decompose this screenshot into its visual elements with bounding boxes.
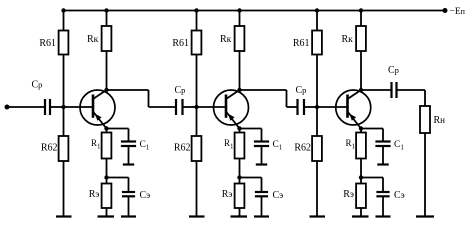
- wire: emitter to R1 stage 2: [239, 129, 241, 133]
- wire: coupling step down 1-2: [148, 90, 150, 107]
- wire: Rk to collector stage 2: [239, 51, 241, 90]
- ground (R62 stage 3): [310, 215, 326, 217]
- resistor R62 (stage 3): [312, 136, 322, 161]
- wire: top supply rail -Ep: [64, 10, 446, 12]
- capacitor Ce (stage 2): [255, 178, 268, 217]
- node: rail junction R61 stage 1: [61, 8, 65, 12]
- capacitor Cp (output coupling): [390, 82, 392, 98]
- svg-text:R62: R62: [41, 143, 58, 154]
- ground (R62 stage 1): [56, 215, 72, 217]
- terminal -Ep: [443, 8, 448, 13]
- node: rail junction Rk stage 1: [104, 8, 108, 12]
- svg-text:R61: R61: [39, 38, 56, 49]
- capacitor Cp (input coupling): [44, 99, 46, 115]
- wire: Rn to ground: [424, 133, 426, 217]
- resistor R61 (stage 2): [192, 31, 202, 55]
- wire: collector 3 to output Cp: [361, 89, 392, 91]
- resistor Rk (stage 1): [102, 26, 112, 51]
- wire: R61 to base node stage 3: [316, 55, 318, 107]
- wire: emitter to R1 stage 3: [360, 129, 362, 133]
- wire: coupling step down 2-3: [286, 90, 288, 107]
- wire: node to Ce stage 2: [240, 177, 262, 179]
- wire: collector 2 to coupling step: [240, 89, 287, 91]
- ground (Rn): [416, 215, 434, 217]
- ground (Re stage 2): [231, 215, 248, 217]
- svg-text:R61: R61: [293, 38, 310, 49]
- svg-text:R61: R61: [172, 38, 189, 49]
- wire: output Cp to Rn: [397, 89, 426, 91]
- wire: R61 to base node stage 2: [196, 55, 198, 107]
- resistor Rk (stage 2): [235, 26, 245, 51]
- wire: Rk to collector stage 1: [106, 51, 108, 90]
- wire: R62 to ground stage 2: [196, 161, 198, 217]
- node: emitter junction stage 3: [359, 126, 363, 130]
- node: rail junction Rk stage 2: [237, 8, 241, 12]
- svg-text:Rэ: Rэ: [89, 189, 100, 200]
- wire: Cp3 to base node stage 3: [304, 106, 317, 108]
- input terminal: [5, 105, 10, 110]
- wire: emitter node to C1 stage 3: [361, 128, 383, 130]
- resistor Re (stage 1): [102, 184, 112, 209]
- node: collector stage 3: [359, 88, 363, 92]
- wire: node to Re stage 2: [239, 178, 241, 184]
- svg-text:Rн: Rн: [434, 115, 446, 126]
- capacitor Cp (coupling 1-2): [175, 99, 177, 115]
- node: base divider junction stage 3: [315, 105, 319, 109]
- wire: base node to R62 stage 1: [63, 107, 65, 136]
- svg-text:Cр: Cр: [175, 85, 186, 96]
- node: R1-Re junction stage 2: [237, 175, 241, 179]
- ground (Re stage 1): [98, 215, 115, 217]
- wire: base lead stage 3: [317, 106, 348, 108]
- transistor Q2 (PNP): [214, 90, 249, 129]
- svg-text:Cр: Cр: [296, 85, 307, 96]
- wire: Re to ground stage 1: [106, 208, 108, 217]
- wire: rail to Rk stage 1: [106, 11, 108, 27]
- resistor Re (stage 3): [356, 184, 366, 209]
- node: base divider junction stage 2: [194, 105, 198, 109]
- svg-text:Rк: Rк: [220, 34, 232, 45]
- wire: rail to R61 stage 2: [196, 11, 198, 31]
- wire: Re to ground stage 2: [239, 208, 241, 217]
- resistor Re (stage 2): [235, 184, 245, 209]
- ground (Ce stage 3): [376, 215, 391, 217]
- wire: Cp1 to base node of stage 1: [50, 106, 64, 108]
- node: rail junction R61 stage 3: [315, 8, 319, 12]
- wire: rail to Rk stage 2: [239, 11, 241, 27]
- svg-text:Cэ: Cэ: [394, 190, 405, 201]
- wire: base node to R62 stage 3: [316, 107, 318, 136]
- wire: node to Re stage 3: [360, 178, 362, 184]
- resistor R61 (stage 1): [59, 31, 69, 55]
- wire: base node to R62 stage 2: [196, 107, 198, 136]
- wire: R1 to Re stage 1: [106, 159, 108, 178]
- wire: emitter node to C1 stage 2: [240, 128, 262, 130]
- wire: base lead stage 1: [64, 106, 94, 108]
- node: R1-Re junction stage 3: [359, 175, 363, 179]
- transistor Q1 (PNP): [80, 90, 115, 129]
- wire: rail to Rk stage 3: [360, 11, 362, 27]
- svg-text:Rэ: Rэ: [222, 189, 233, 200]
- wire: collector 1 to coupling step: [107, 89, 149, 91]
- resistor R62 (stage 1): [59, 136, 69, 161]
- node: rail junction Rk stage 3: [359, 8, 363, 12]
- svg-text:Rэ: Rэ: [343, 189, 354, 200]
- wire: emitter to R1 stage 1: [106, 129, 108, 133]
- node: rail junction R61 stage 2: [194, 8, 198, 12]
- node: collector stage 1: [104, 88, 108, 92]
- ground (Ce stage 2): [254, 215, 269, 217]
- svg-text:Cэ: Cэ: [273, 190, 284, 201]
- ground (Ce stage 1): [121, 215, 136, 217]
- node: emitter junction stage 1: [104, 126, 108, 130]
- resistor R62 (stage 2): [192, 136, 202, 161]
- node: collector stage 2: [237, 88, 241, 92]
- wire: emitter node to C1 stage 1: [107, 128, 129, 130]
- transistor Q3 (PNP): [336, 90, 371, 129]
- wire: node to Ce stage 3: [361, 177, 383, 179]
- capacitor C1 (stage 1): [121, 129, 136, 165]
- wire: Rk to collector stage 3: [360, 51, 362, 90]
- wire: input to Cp1: [7, 106, 45, 108]
- capacitor Ce (stage 1): [122, 178, 135, 217]
- wire: Cp2 to base node stage 2: [183, 106, 197, 108]
- wire: rail to R61 stage 3: [316, 11, 318, 31]
- wire: R62 to ground stage 3: [316, 161, 318, 217]
- svg-text:Cэ: Cэ: [140, 190, 151, 201]
- svg-text:−Eп: −Eп: [450, 7, 466, 17]
- svg-text:Rк: Rк: [342, 34, 354, 45]
- resistor R1 (stage 3): [356, 133, 366, 159]
- wire: node to Re stage 1: [106, 178, 108, 184]
- wire: R1 to Re stage 2: [239, 159, 241, 178]
- wire: base lead stage 2: [197, 106, 227, 108]
- wire: Re to ground stage 3: [360, 208, 362, 217]
- node: base divider junction stage 1: [61, 105, 65, 109]
- ground (Re stage 3): [352, 215, 369, 217]
- wire: node to Ce stage 1: [107, 177, 129, 179]
- capacitor Ce (stage 3): [376, 178, 389, 217]
- svg-text:R62: R62: [174, 143, 191, 154]
- capacitor Cp (coupling 2-3): [296, 99, 298, 115]
- svg-text:Rк: Rк: [87, 34, 99, 45]
- wire: to Cp3: [287, 106, 298, 108]
- node: R1-Re junction stage 1: [104, 175, 108, 179]
- resistor R1 (stage 1): [102, 133, 112, 159]
- wire: R61 to base node stage 1: [63, 55, 65, 107]
- capacitor C1 (stage 2): [254, 129, 269, 165]
- resistor Rk (stage 3): [356, 26, 366, 51]
- wire: rail to R61 stage 1: [63, 11, 65, 31]
- resistor Rn (load): [420, 106, 430, 133]
- ground (C1 stage 1): [123, 163, 134, 165]
- ground (R62 stage 2): [189, 215, 205, 217]
- wire: R62 to ground stage 1: [63, 161, 65, 217]
- svg-text:Cр: Cр: [388, 65, 399, 76]
- wire: down to Rn: [424, 90, 426, 106]
- ground (C1 stage 3): [377, 163, 388, 165]
- ground (C1 stage 2): [256, 163, 267, 165]
- node: emitter junction stage 2: [237, 126, 241, 130]
- wire: to Cp2: [149, 106, 177, 108]
- svg-text:R62: R62: [294, 143, 311, 154]
- capacitor C1 (stage 3): [375, 129, 390, 165]
- resistor R61 (stage 3): [312, 31, 322, 55]
- svg-text:Cр: Cр: [32, 80, 43, 91]
- wire: R1 to Re stage 3: [360, 159, 362, 178]
- resistor R1 (stage 2): [235, 133, 245, 159]
